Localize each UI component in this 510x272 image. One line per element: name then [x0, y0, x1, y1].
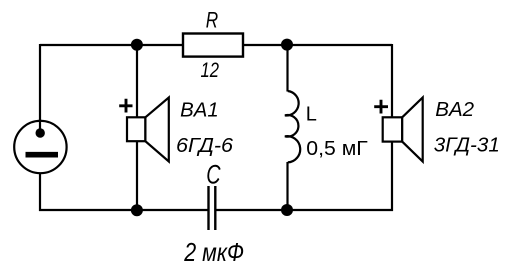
source G1 inner stem [39, 119, 41, 133]
wire BA1 branch vertical [136, 45, 138, 210]
speaker BA2 plus sign [374, 100, 388, 114]
inductor L coil [285, 91, 300, 162]
svg-text:0,5 мГ: 0,5 мГ [306, 138, 368, 160]
svg-text:2 мкФ: 2 мкФ [183, 237, 244, 267]
wire right from top corner to bottom corner [391, 44, 393, 211]
wire bottom left of capacitor [39, 209, 209, 211]
node junction dot bottom-left [131, 204, 143, 216]
resistor R body [183, 34, 243, 57]
wire inductor branch bottom [286, 162, 288, 210]
source G1 circle [14, 121, 66, 173]
wire inductor branch top [286, 45, 288, 92]
svg-text:12: 12 [201, 58, 220, 82]
node junction dot bottom-right [281, 204, 293, 216]
wire left from source bar to bottom corner [39, 155, 41, 211]
speaker BA1 square [127, 117, 145, 141]
source G1 inner dot [36, 128, 45, 137]
capacitor C plate left [207, 186, 209, 230]
speaker BA2 horn [402, 98, 423, 162]
node junction dot top-right [281, 39, 293, 51]
svg-text:BA2: BA2 [435, 99, 474, 121]
wire top from left corner to right corner [40, 44, 392, 46]
node junction dot top-left [131, 39, 143, 51]
speaker BA2 square [383, 117, 403, 141]
wire left from top corner to source circle top [39, 44, 41, 134]
wire bottom right of capacitor [215, 209, 393, 211]
svg-text:L: L [306, 104, 317, 126]
svg-text:C: C [206, 160, 221, 190]
capacitor C plate right [214, 186, 216, 230]
source G1 inner bar [26, 152, 59, 158]
svg-text:3ГД-31: 3ГД-31 [434, 135, 500, 157]
svg-text:6ГД-6: 6ГД-6 [176, 135, 234, 157]
svg-text:BA1: BA1 [180, 99, 219, 121]
speaker BA1 plus sign [119, 99, 132, 113]
svg-text:R: R [206, 8, 218, 33]
speaker BA1 horn [145, 98, 168, 162]
